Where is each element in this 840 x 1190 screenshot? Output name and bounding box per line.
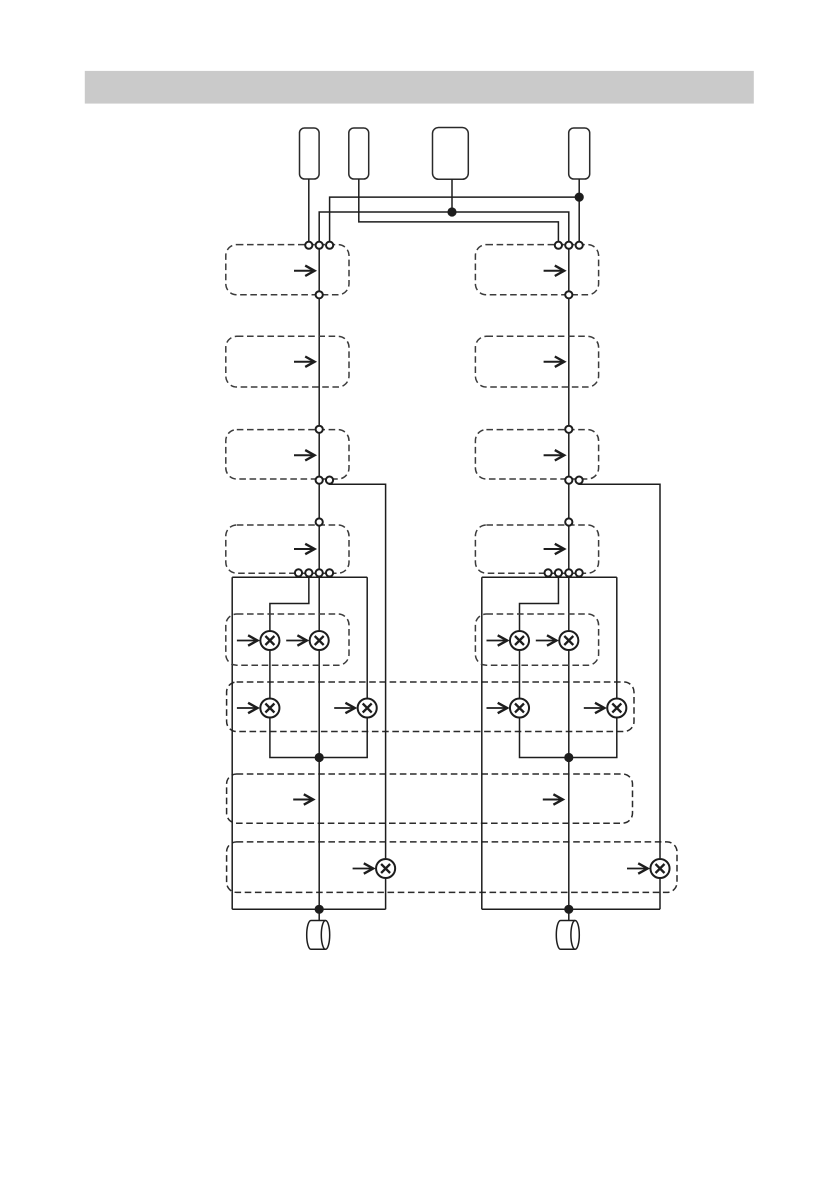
right channel main wire [568,245,570,920]
left contact row below B4 [295,569,302,576]
right contact row a-b-c [555,242,562,249]
right block B2 [475,336,598,387]
left X5 output wire [385,878,387,910]
wire J4 drop [578,179,580,245]
left block B4 [226,525,349,573]
band Y6 (stereo bus band) [227,682,634,732]
right B4 arrow [544,544,565,554]
right merge wire [520,717,617,757]
right X3 arrow [487,703,508,713]
right multiplier X4 [607,698,626,717]
left multiplier X5 [376,859,395,878]
connector jack J4 [569,128,590,179]
left contact above B3 [316,426,323,433]
left block B1 (input select) [226,245,349,295]
right tape-out wire [579,483,660,858]
right B7 arrow [543,794,563,804]
left B3 arrow [294,450,315,460]
right multiplier X5 [650,859,669,878]
right contact above B4 [565,518,572,525]
left block B5 (pan/level) [226,614,349,665]
left collect wire [232,908,385,910]
left contact above B4 [316,518,323,525]
left channel main wire [318,245,320,920]
right block B1 (input select) [475,245,598,295]
right X1 arrow [487,635,508,645]
right X2 arrow [536,635,557,645]
right B3 arrow [544,450,565,460]
connector jack J2 [349,128,369,179]
right multiplier X3 [510,698,529,717]
left X1 to X3 wire [269,650,271,699]
left tape-out wire [330,483,386,858]
left bus drop wire right [366,577,368,698]
right collect junction [564,905,573,914]
left multiplier X1 [260,631,279,650]
left record head [307,921,330,950]
right X1 to X3 wire [519,650,521,699]
right multiplier X1 [510,631,529,650]
left B1 arrow [294,266,315,276]
band Y7 (monitor band) [227,774,633,823]
left X5 arrow [353,863,374,873]
band Y8 (record level band) [227,842,677,893]
left contact row a-b-c [305,242,312,249]
header bar [85,71,754,104]
left B4 arrow [294,544,315,554]
left bus drop wire left [231,577,233,909]
wire J3 drop [451,179,453,212]
right record head [556,921,579,950]
left block B2 [226,336,349,387]
left X1 arrow [237,635,258,645]
left collect junction [315,905,324,914]
connector jack J3 [433,128,469,180]
right block B3 [475,430,598,479]
left merge junction [315,753,324,762]
wire J1 to left contact a [308,179,310,245]
connector jack J1 [300,128,320,179]
right X5 output wire [659,878,661,910]
left X2 arrow [286,635,307,645]
right block B4 [475,525,598,573]
right jog wire to X1 [520,577,559,631]
left merge wire [270,717,367,757]
right merge junction [564,753,573,762]
left multiplier X3 [260,698,279,717]
bus wire B to contacts b [319,212,569,245]
right bus drop wire left [481,577,483,909]
right contact row below B4 [545,569,552,576]
left multiplier X2 [310,631,329,650]
left contacts below B3 [316,477,323,484]
left block B3 [226,430,349,479]
left B7 arrow [293,794,313,804]
left X4 arrow [334,703,355,713]
left contact below B1 [316,291,323,298]
right multiplier X2 [559,631,578,650]
junction J3/bus B [447,207,456,216]
right collect wire [482,908,660,910]
left multiplier X4 [358,698,377,717]
right X5 arrow [627,863,648,873]
wire J2 to right contact a (bus C) [359,179,559,245]
right contact above B3 [565,426,572,433]
left contact bus wire [232,576,367,578]
bus wire A to left contact c [330,197,580,245]
right B2 arrow [544,357,565,367]
right contacts below B3 [565,477,572,484]
right block B5 (pan/level) [475,614,598,665]
right B1 arrow [544,266,565,276]
junction J4/bus A [575,193,584,202]
right contact bus wire [482,576,617,578]
right X4 arrow [584,703,605,713]
right bus drop wire right [616,577,618,698]
left jog wire to X1 [270,577,309,631]
left X3 arrow [237,703,258,713]
right contact below B1 [565,291,572,298]
left B2 arrow [294,357,315,367]
